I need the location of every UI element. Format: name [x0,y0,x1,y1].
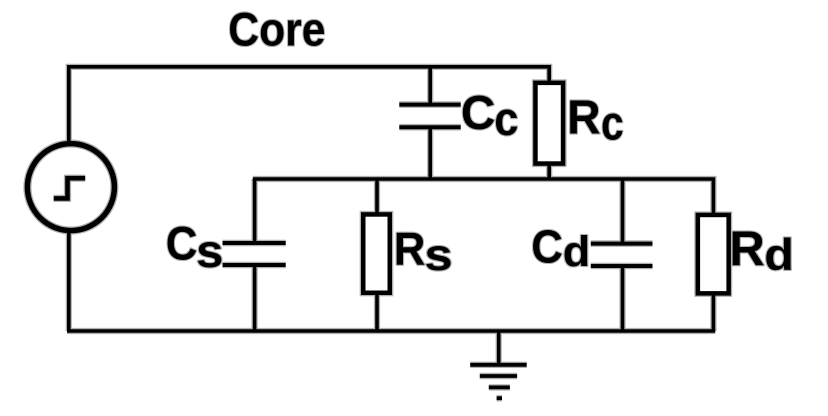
svg-text:s: s [196,226,223,277]
svg-text:s: s [424,231,452,280]
svg-text:C: C [166,217,198,270]
svg-text:c: c [494,93,518,146]
svg-text:C: C [531,220,563,272]
svg-text:d: d [764,230,794,280]
svg-text:C: C [461,87,495,140]
svg-text:R: R [567,90,600,144]
svg-text:d: d [563,228,591,275]
svg-text:R: R [394,222,426,275]
svg-text:Core: Core [228,2,325,55]
svg-text:R: R [729,223,764,277]
svg-text:c: c [601,97,624,150]
